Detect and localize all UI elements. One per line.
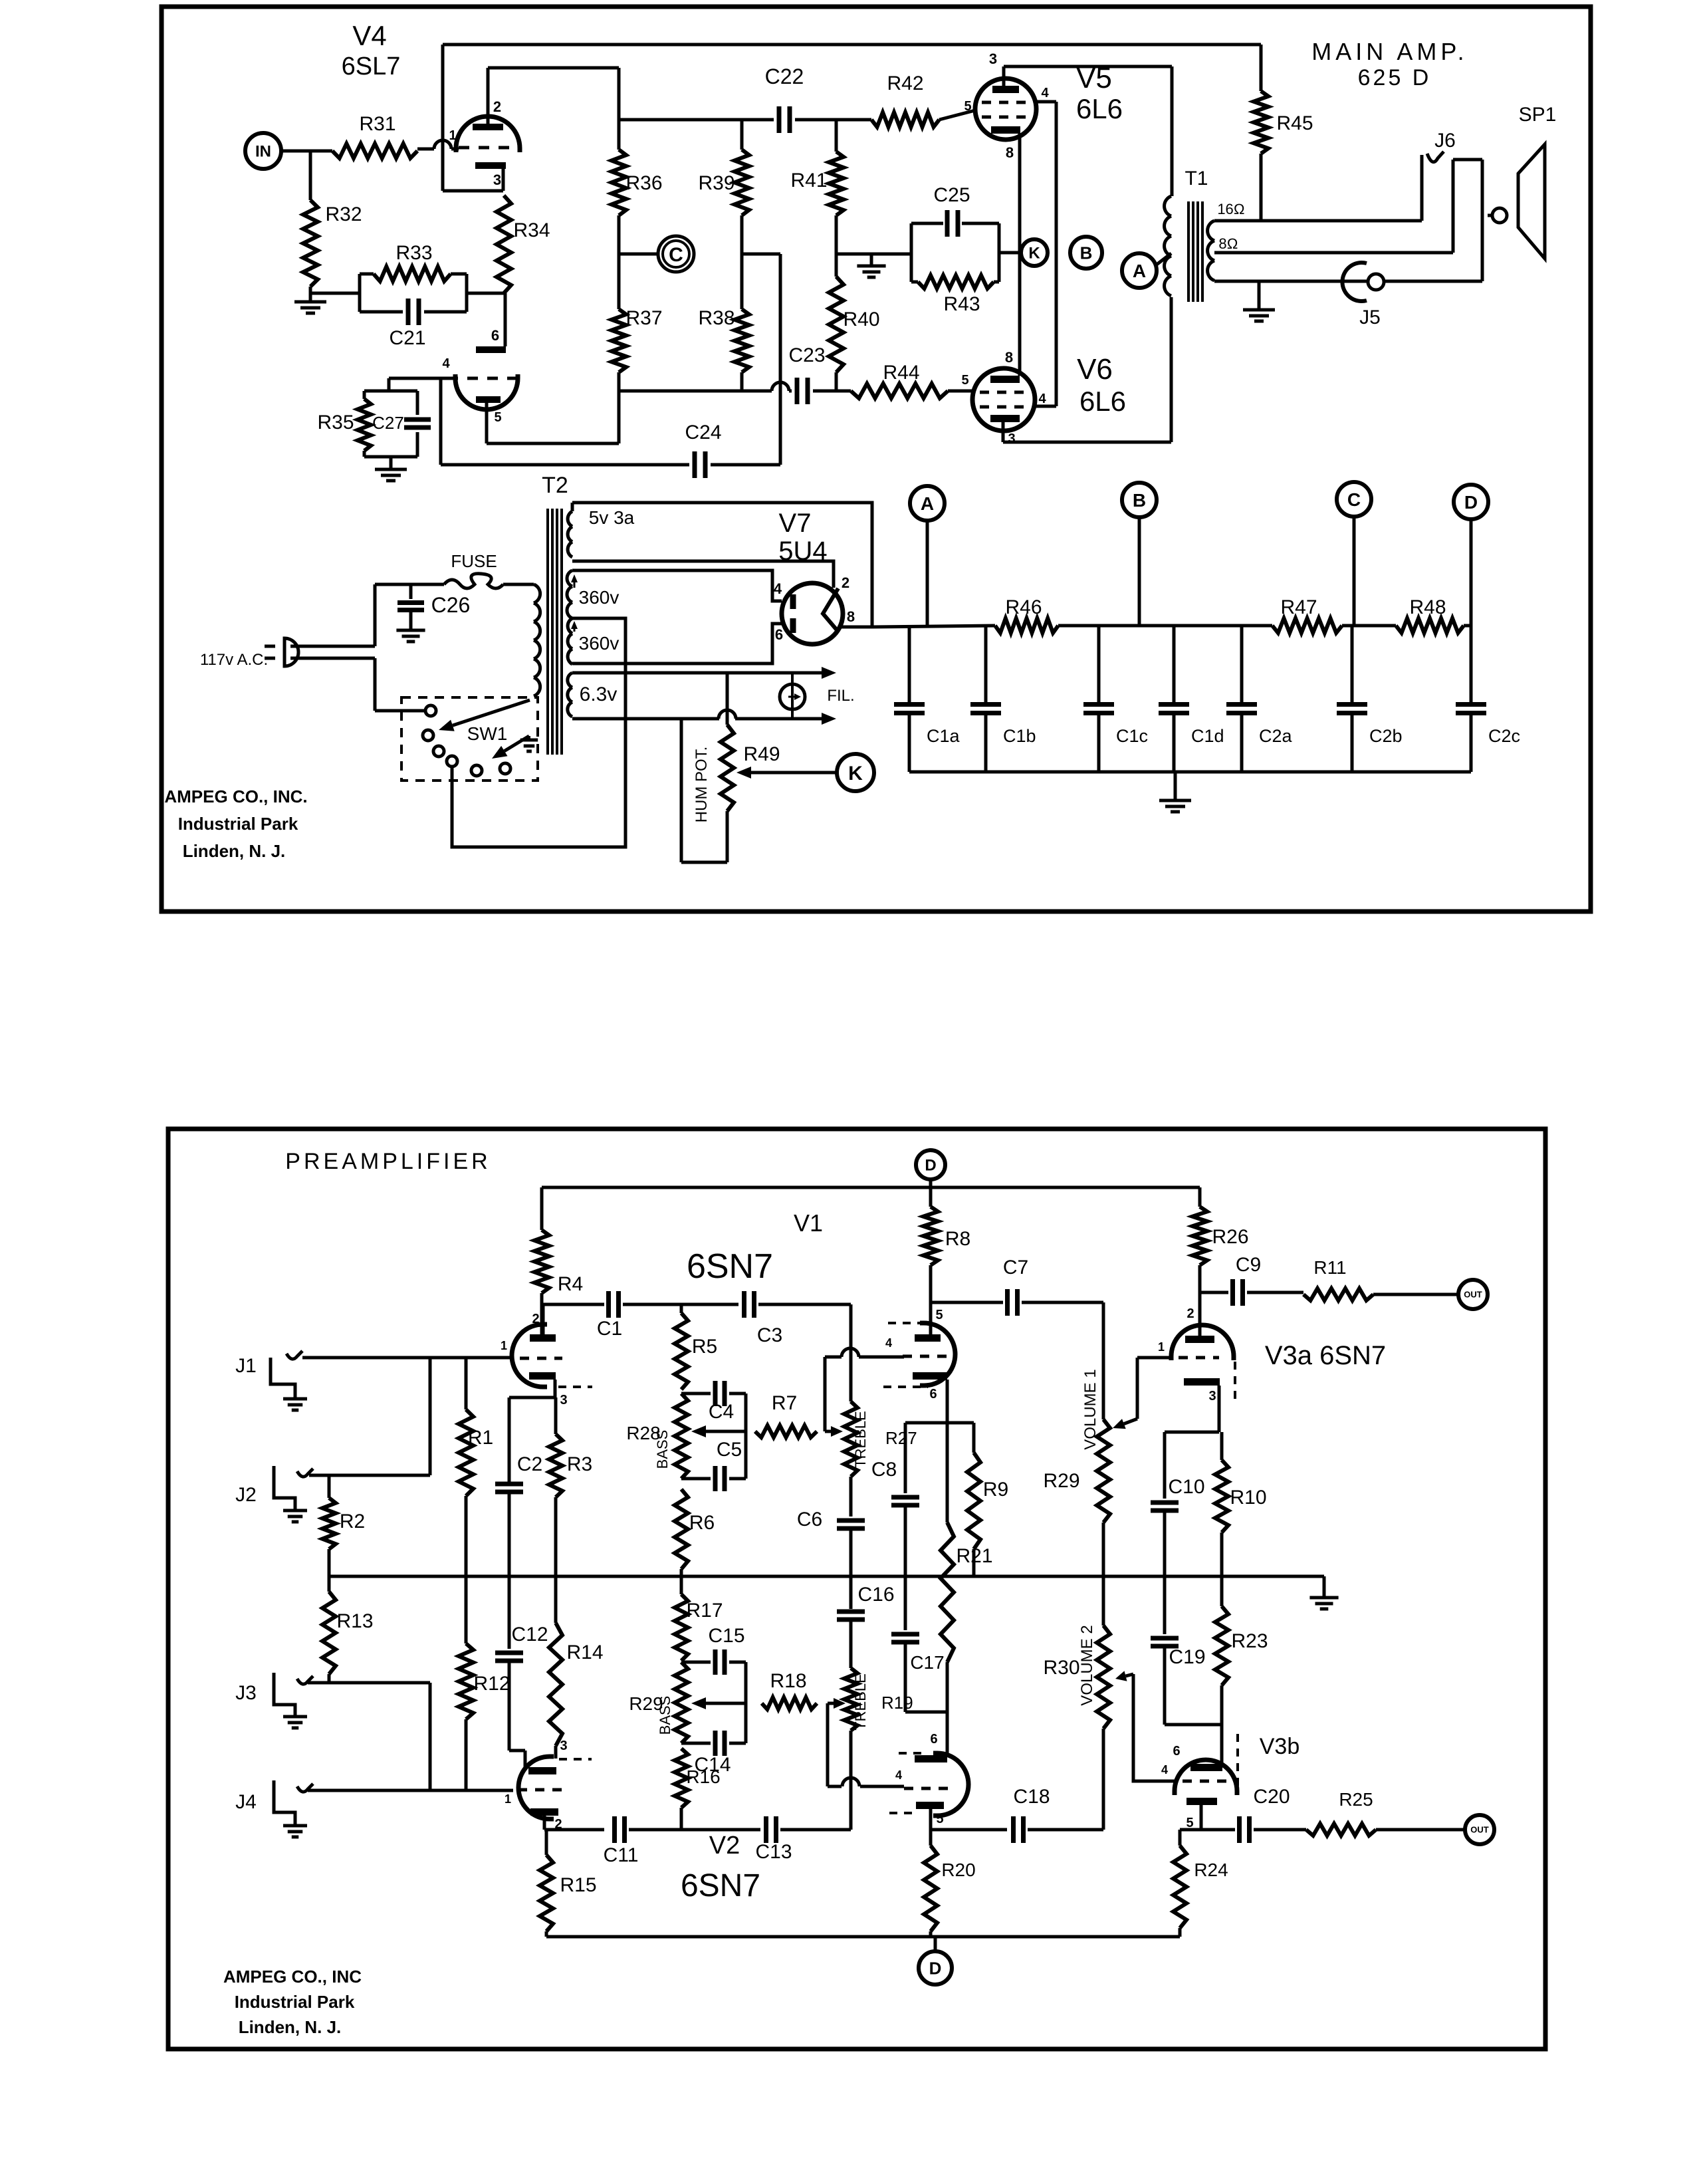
- svg-text:6: 6: [930, 1732, 937, 1747]
- wire J1 to V1a grid: [302, 1356, 512, 1360]
- resistor R5: [680, 1304, 683, 1313]
- tube V4a plate lead: [487, 68, 490, 125]
- svg-text:R23: R23: [1231, 1630, 1268, 1652]
- svg-text:C1a: C1a: [927, 726, 960, 746]
- wire plate to C1: [543, 1303, 604, 1306]
- volume pot R30: [1102, 1576, 1105, 1626]
- svg-text:C: C: [1347, 489, 1361, 510]
- wire B drop: [1138, 517, 1141, 626]
- svg-text:2: 2: [532, 1312, 539, 1326]
- capacitor C14: [713, 1731, 718, 1756]
- jack J2 body: [274, 1466, 295, 1509]
- wire C18 to volume2: [1028, 1828, 1103, 1832]
- wire drop to C24 wire: [779, 254, 782, 465]
- svg-text:V4: V4: [352, 20, 386, 51]
- resistor R43 in box bottom: [911, 281, 918, 284]
- svg-text:5: 5: [964, 99, 971, 114]
- svg-text:BASS: BASS: [654, 1430, 671, 1469]
- tube V4b grid dashes: [447, 377, 518, 380]
- capacitor C3: [742, 1291, 746, 1318]
- R33 C21 box left edge: [358, 274, 362, 312]
- svg-text:6: 6: [929, 1387, 937, 1401]
- wire C drop: [1353, 517, 1356, 626]
- R35 C27 box bottom: [364, 455, 417, 459]
- capacitor C1b: [984, 627, 988, 704]
- wire V3b plate to C20: [1180, 1828, 1235, 1832]
- tube V5 plate bar: [992, 86, 1019, 93]
- capacitor C23: [789, 390, 792, 393]
- resistor R7: [755, 1425, 817, 1437]
- tube V5 plate lead: [1002, 66, 1006, 86]
- svg-text:IN: IN: [255, 143, 271, 161]
- arrow treble2 wiper: [828, 1702, 834, 1705]
- wire R41 line top: [835, 120, 838, 152]
- svg-text:K: K: [1028, 245, 1040, 263]
- capacitor C7: [1005, 1289, 1010, 1316]
- svg-text:6: 6: [775, 626, 783, 643]
- resistor R26: [1198, 1187, 1202, 1207]
- tube V2b plate bar: [916, 1802, 944, 1809]
- svg-text:R6: R6: [689, 1512, 715, 1534]
- svg-text:V7: V7: [779, 509, 812, 538]
- svg-text:2: 2: [493, 98, 501, 115]
- svg-text:V5: V5: [1076, 62, 1112, 94]
- wire C7 feed: [931, 1301, 1003, 1304]
- wire V5 screen to bus: [1036, 100, 1056, 104]
- resistor R37: [612, 309, 626, 372]
- resistor R25: [1306, 1824, 1376, 1836]
- jack J3 body: [274, 1673, 295, 1715]
- wire cathode to C10: [1165, 1431, 1219, 1434]
- tube V1b envelope dome: [920, 1323, 955, 1386]
- resistor R8: [929, 1187, 933, 1207]
- svg-text:C7: C7: [1003, 1257, 1028, 1278]
- tube V5 grid dashes row1: [982, 101, 1030, 104]
- wire V5 cathode bus: [1018, 134, 1022, 376]
- wiper V3b arrow: [1126, 1674, 1134, 1676]
- svg-text:C4: C4: [709, 1401, 734, 1423]
- capacitor C27 in box right edge: [416, 391, 419, 415]
- wire filter ground bus: [909, 771, 1471, 774]
- svg-text:4: 4: [442, 356, 450, 371]
- wire bus to C16: [849, 1576, 853, 1609]
- wire 16 ohm tap: [1214, 219, 1422, 223]
- wire grid bus drop: [429, 1358, 432, 1475]
- wire J4 to V2a grid: [308, 1789, 513, 1792]
- bottom panel border frame: [168, 1129, 1545, 2049]
- resistor R16: [675, 1749, 688, 1808]
- wire C22 to R42: [795, 118, 871, 122]
- wire plug bottom: [290, 657, 375, 660]
- ground below C26: [396, 629, 425, 632]
- wire R36 to R37: [618, 215, 621, 309]
- speaker SP1 driver: [1492, 208, 1507, 223]
- wire V6 plate to T1 bottom: [1003, 441, 1171, 444]
- svg-text:V1: V1: [794, 1209, 823, 1237]
- wire V1a plate junction: [542, 1304, 545, 1334]
- svg-text:D: D: [929, 1958, 942, 1978]
- svg-text:V3a 6SN7: V3a 6SN7: [1265, 1341, 1386, 1370]
- svg-text:Industrial Park: Industrial Park: [178, 814, 298, 834]
- capacitor C18: [1011, 1816, 1016, 1843]
- svg-text:C12: C12: [511, 1624, 548, 1645]
- tube V4a plate bar: [473, 124, 503, 130]
- plug 117v body: [284, 638, 298, 666]
- capacitor C5: [713, 1466, 718, 1491]
- svg-text:C13: C13: [755, 1841, 792, 1863]
- tube V3a right dashes: [1234, 1362, 1236, 1401]
- wire B plus rail segment 4: [1464, 624, 1471, 628]
- wire SW1 to HT center tap: [452, 618, 625, 847]
- svg-text:360v: 360v: [579, 633, 620, 654]
- treble pot R19: [844, 1668, 857, 1731]
- wire A drop: [926, 521, 929, 626]
- svg-text:16Ω: 16Ω: [1217, 201, 1244, 217]
- svg-text:C1b: C1b: [1003, 726, 1036, 746]
- tube V1a cathode bar: [529, 1372, 556, 1380]
- wire preamp ground bus: [329, 1575, 1319, 1578]
- resistor R33 parallel box top: [360, 273, 374, 276]
- wire C17 to R21 junction: [904, 1642, 907, 1712]
- svg-text:R16: R16: [686, 1766, 720, 1787]
- wire 5v bottom to V7 pin2: [572, 561, 834, 588]
- capacitor C1c: [1097, 627, 1101, 704]
- wire V6 screen: [1035, 405, 1056, 408]
- svg-text:R35: R35: [317, 412, 354, 433]
- wire V4b grid run: [389, 377, 457, 380]
- svg-text:J5: J5: [1359, 306, 1381, 328]
- tube V4a cathode lead: [502, 169, 505, 191]
- C25 R43 box right edge: [998, 223, 1001, 282]
- svg-text:625 D: 625 D: [1358, 65, 1432, 90]
- resistor R36: [612, 150, 626, 215]
- wire J3 to bus: [308, 1681, 430, 1685]
- svg-text:SP1: SP1: [1519, 104, 1557, 126]
- wire cathode to C8: [905, 1421, 947, 1425]
- tube V6 grid dashes row1: [980, 391, 1028, 394]
- tube V2a cathode bar: [528, 1767, 556, 1774]
- svg-text:4: 4: [1041, 86, 1049, 100]
- wire R39 line top: [740, 120, 744, 150]
- wire preamp D return bus: [546, 1935, 1180, 1939]
- capacitor C26 stub: [409, 584, 413, 599]
- wire filament bottom with arrow: [572, 717, 719, 721]
- svg-text:OUT: OUT: [1470, 1825, 1489, 1835]
- wire C19 column: [1163, 1576, 1167, 1634]
- resistor R3: [554, 1397, 558, 1434]
- wire bass1 tap lower: [681, 1477, 711, 1481]
- svg-text:B: B: [1133, 490, 1146, 511]
- node OUT bottom: [1465, 1815, 1494, 1844]
- switch arm arrow from T2: [453, 700, 530, 725]
- wire C11 to R16: [629, 1828, 760, 1832]
- capacitor C2c: [1470, 626, 1473, 704]
- wire R19 to C13 wire: [849, 1731, 853, 1830]
- svg-text:5: 5: [961, 373, 968, 388]
- svg-text:R42: R42: [887, 72, 923, 94]
- wire V2a plate junction: [544, 1828, 604, 1832]
- resistor R49 hum pot: [721, 725, 734, 811]
- svg-text:R21: R21: [956, 1545, 992, 1567]
- tube V2b cathode bar: [915, 1755, 947, 1762]
- tube V1b top dashes: [888, 1322, 920, 1324]
- capacitor C12: [495, 1651, 523, 1655]
- wire up to fuse line: [374, 584, 377, 646]
- wire C9 to R11: [1247, 1291, 1303, 1294]
- node D preamp bottom: [919, 1951, 952, 1985]
- svg-text:C24: C24: [685, 422, 721, 443]
- node IN: [245, 133, 281, 169]
- tube V2a envelope dome: [518, 1757, 554, 1819]
- svg-text:R31: R31: [359, 113, 395, 135]
- capacitor C21 in box bottom branch: [360, 310, 403, 314]
- svg-text:C1: C1: [597, 1318, 622, 1340]
- svg-text:C8: C8: [871, 1459, 897, 1481]
- wire plate line corner down: [618, 68, 621, 150]
- svg-text:R5: R5: [692, 1336, 717, 1358]
- svg-text:5U4: 5U4: [778, 537, 827, 566]
- wire 5v top to V7 pin8 junction: [572, 503, 872, 627]
- svg-text:T2: T2: [542, 473, 568, 498]
- wire C7 to volume1: [1022, 1301, 1103, 1304]
- resistor R12: [459, 1643, 473, 1719]
- svg-text:3: 3: [1208, 1389, 1216, 1403]
- svg-text:AMPEG CO., INC: AMPEG CO., INC: [223, 1967, 362, 1987]
- pilot lamp FIL: [780, 684, 805, 709]
- wire R37 bottom segment: [618, 372, 621, 443]
- svg-text:VOLUME 2: VOLUME 2: [1078, 1625, 1096, 1705]
- svg-text:BASS: BASS: [657, 1696, 673, 1735]
- svg-text:D: D: [925, 1157, 936, 1175]
- resistor R20: [929, 1830, 933, 1846]
- svg-text:C6: C6: [797, 1509, 822, 1530]
- ground below filter bus: [1159, 799, 1191, 802]
- node A distribution: [910, 486, 945, 521]
- svg-text:8: 8: [1005, 349, 1013, 366]
- tube V7 plate bar lower: [790, 618, 796, 633]
- wire IN to R31: [281, 150, 332, 153]
- svg-text:R29: R29: [1043, 1470, 1079, 1492]
- svg-text:C18: C18: [1013, 1786, 1050, 1808]
- capacitor C2a: [1240, 627, 1244, 704]
- tube V6 grid dashes row2: [980, 406, 1028, 409]
- svg-text:R8: R8: [945, 1228, 970, 1250]
- wire cathode branch left: [509, 1396, 555, 1399]
- svg-text:4: 4: [1038, 392, 1046, 406]
- node OUT top: [1458, 1280, 1488, 1309]
- volume pot R29 lead: [1102, 1302, 1105, 1419]
- capacitor C11: [612, 1816, 617, 1843]
- svg-text:3: 3: [560, 1739, 567, 1753]
- resistor R4: [540, 1187, 544, 1230]
- tube V3a envelope dome: [1171, 1325, 1234, 1360]
- svg-text:Industrial Park: Industrial Park: [235, 1992, 355, 2012]
- capacitor C19: [1151, 1636, 1179, 1641]
- arrow bass2 wiper: [706, 1702, 746, 1705]
- wire R32 to ground: [309, 287, 312, 301]
- wire B plus rail segment 2: [1058, 624, 1272, 628]
- wire treble1 top: [849, 1304, 853, 1401]
- svg-text:Linden, N. J.: Linden, N. J.: [183, 841, 286, 861]
- svg-text:1: 1: [449, 128, 456, 143]
- capacitor C1d: [1173, 627, 1176, 704]
- wire C24 bus: [441, 463, 689, 467]
- tube V1a plate bar: [530, 1334, 556, 1342]
- resistor R48: [1396, 618, 1464, 633]
- wire ground junction to R33 C21 box: [310, 292, 360, 295]
- node A output tap: [1122, 253, 1157, 288]
- wire V7 pin8 to B plus: [842, 626, 872, 629]
- resistor R40: [829, 277, 844, 372]
- wire wiper2 drop: [826, 1703, 830, 1786]
- jack J4 body: [274, 1780, 295, 1824]
- wire R41 junction to C25 box: [836, 253, 911, 256]
- capacitor C4: [713, 1381, 718, 1406]
- wire C10 to bus: [1163, 1511, 1167, 1576]
- jack J2 tip: [297, 1469, 313, 1477]
- svg-text:C26: C26: [431, 593, 471, 617]
- capacitor C26: [397, 600, 424, 605]
- wire C6 to bus: [849, 1528, 853, 1576]
- capacitor C6: [837, 1518, 865, 1523]
- plug prongs: [265, 645, 275, 648]
- wire 8 ohm riser to J6: [1452, 160, 1455, 253]
- svg-text:2: 2: [1186, 1306, 1194, 1321]
- tube V1b grid dashes: [903, 1355, 947, 1358]
- svg-text:R47: R47: [1280, 596, 1317, 618]
- jack J3 tip: [297, 1676, 313, 1684]
- tube V5 envelope circle: [975, 78, 1036, 140]
- svg-text:C: C: [669, 244, 683, 266]
- svg-text:C25: C25: [933, 184, 970, 206]
- svg-text:C2c: C2c: [1488, 726, 1520, 746]
- bass pot R20: [675, 1662, 688, 1743]
- svg-text:Linden, N. J.: Linden, N. J.: [239, 2017, 342, 2037]
- tube V7 cathode notch: [823, 588, 838, 632]
- tube V1b cathode bar: [913, 1372, 947, 1380]
- wire top bus: [443, 43, 1261, 47]
- svg-text:V2: V2: [709, 1832, 740, 1860]
- C25 R43 box left edge: [910, 223, 913, 282]
- tube V3a plate bar: [1185, 1336, 1214, 1343]
- wire C24 to drop line: [711, 463, 780, 467]
- capacitor C16: [837, 1610, 865, 1614]
- wire bus left drop: [441, 45, 445, 191]
- tube V1b plate bar: [915, 1334, 941, 1342]
- wire V1b plate lead: [929, 1304, 933, 1334]
- capacitor C20: [1237, 1816, 1242, 1843]
- capacitor C10: [1151, 1501, 1179, 1505]
- svg-text:R45: R45: [1276, 112, 1313, 134]
- wire IN junction down to R32: [309, 151, 312, 200]
- svg-text:R4: R4: [558, 1273, 583, 1295]
- svg-text:A: A: [921, 493, 934, 514]
- svg-text:C10: C10: [1168, 1476, 1204, 1498]
- svg-text:MAIN AMP.: MAIN AMP.: [1311, 38, 1468, 65]
- svg-text:R49: R49: [743, 743, 780, 765]
- svg-text:C22: C22: [765, 64, 804, 88]
- wire V1b cathode lead: [946, 1380, 949, 1423]
- svg-text:R19: R19: [881, 1693, 913, 1713]
- wire C12 to V2a cathode: [509, 1749, 525, 1753]
- transformer T1 secondary winding: [1208, 221, 1214, 241]
- svg-text:C19: C19: [1169, 1646, 1205, 1668]
- wire filament top with arrow: [572, 671, 822, 675]
- transformer T2 primary winding: [534, 584, 540, 603]
- wire to J2 tip: [309, 1474, 430, 1477]
- svg-text:6.3v: 6.3v: [580, 683, 618, 705]
- tube V3b plate bar: [1186, 1798, 1217, 1805]
- svg-text:R17: R17: [686, 1600, 723, 1622]
- svg-text:R43: R43: [943, 293, 980, 315]
- hum pot box left edge: [680, 719, 683, 862]
- wire V2b plate lead: [929, 1809, 933, 1830]
- svg-text:4: 4: [885, 1336, 892, 1350]
- svg-text:FUSE: FUSE: [451, 551, 497, 571]
- svg-text:R36: R36: [625, 172, 662, 194]
- ground at J3: [283, 1715, 307, 1719]
- R35 box left edge stubs: [363, 391, 366, 399]
- tube V5 grid dashes row2: [982, 116, 1030, 119]
- node D preamp top: [916, 1150, 945, 1179]
- wire V2b grid: [828, 1785, 842, 1788]
- tube V4b cathode lead: [485, 403, 489, 443]
- svg-text:R27: R27: [885, 1428, 917, 1448]
- wire screen bus: [1055, 102, 1058, 406]
- R33 C21 box right edge: [465, 274, 469, 312]
- svg-text:R48: R48: [1409, 596, 1446, 618]
- ground stub preamp bus: [1319, 1575, 1324, 1578]
- wiper V3a arrow: [1124, 1419, 1137, 1424]
- wire V1b grid: [825, 1356, 842, 1359]
- wire V1a cathode lead: [554, 1380, 557, 1397]
- capacitor C8: [891, 1495, 919, 1500]
- tube V3a cathode bar: [1184, 1378, 1220, 1386]
- switch SW1 contact 4: [447, 756, 457, 767]
- wire 360v top to V7 pin4: [572, 570, 782, 601]
- wire C23 left: [619, 390, 772, 393]
- wire fuse to T2 primary: [503, 583, 534, 586]
- capacitor C2b: [1351, 626, 1354, 704]
- fuse FUSE symbol: [444, 574, 503, 588]
- svg-text:R46: R46: [1005, 596, 1042, 618]
- svg-text:8: 8: [847, 608, 855, 625]
- capacitor C2: [495, 1482, 523, 1487]
- wire D drop: [1470, 519, 1473, 626]
- ground stub on secondary: [1258, 281, 1261, 308]
- wire box to cathode node: [467, 292, 505, 295]
- wire V3a grid: [1137, 1356, 1173, 1360]
- wire to SW1: [375, 709, 426, 713]
- tube V4b envelope dome inverted: [455, 374, 518, 410]
- node K: [1021, 239, 1048, 266]
- svg-text:8: 8: [1006, 144, 1014, 161]
- arrow K to hum pot wiper: [751, 771, 837, 775]
- transformer T2 5v winding: [571, 503, 574, 511]
- resistor R14: [549, 1623, 562, 1746]
- wire B plus rail segment 3: [1342, 624, 1396, 628]
- wire V4a plate top run: [488, 66, 619, 70]
- tube V4a envelope dome: [456, 116, 520, 152]
- tube V2a grid dashes: [518, 1788, 562, 1792]
- svg-text:C17: C17: [910, 1652, 944, 1673]
- tube V6 cathode bar: [990, 376, 1020, 383]
- resistor R17: [680, 1576, 683, 1594]
- wire plug bottom drop: [374, 658, 377, 711]
- transformer T2 6.3v winding: [568, 673, 572, 687]
- wire D stub: [929, 1179, 933, 1187]
- volume pot R29: [1097, 1419, 1110, 1522]
